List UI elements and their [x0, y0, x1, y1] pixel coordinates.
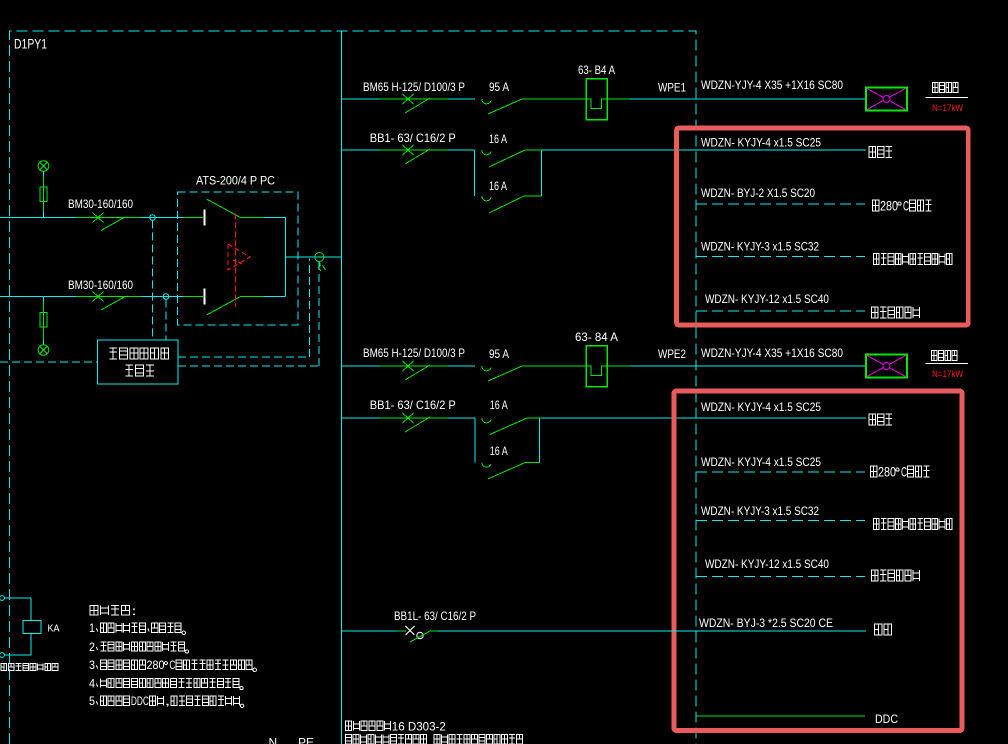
wire dashed sense left — [0, 361, 98, 363]
wire parallel rejoin 2 — [539, 418, 541, 462]
svg-text:N=17kW: N=17kW — [932, 103, 963, 113]
svg-text:5: 5 — [89, 695, 95, 708]
label 95A — [489, 80, 509, 94]
svg-text::: : — [131, 604, 137, 618]
svg-text:16 D303-2: 16 D303-2 — [392, 720, 446, 733]
svg-text:WDZN- KYJY-3 x1.5 SC32: WDZN- KYJY-3 x1.5 SC32 — [701, 240, 819, 254]
label cable WDZN-KYJY-3x1.5 SC32 (2) — [701, 504, 819, 518]
breaker QF3 BM65H-125/D100/3P — [342, 94, 476, 113]
svg-text:KA: KA — [48, 624, 60, 635]
wire dashed 手动控制盘 row1 — [696, 256, 865, 258]
terminal from fire module b — [0, 653, 4, 658]
label 16A a — [489, 132, 507, 146]
wire dashed sense from feed2 — [165, 300, 167, 341]
svg-text:WDZN- KYJY-4 x1.5 SC25: WDZN- KYJY-4 x1.5 SC25 — [701, 136, 821, 150]
label WPE1 — [658, 81, 686, 95]
current sensor CT1 — [315, 253, 326, 271]
node tap feed2 — [163, 294, 169, 300]
label 63-84 A — [575, 330, 618, 344]
indicator lamp HL1 — [38, 161, 49, 172]
svg-text:16 A: 16 A — [490, 444, 508, 458]
svg-text:95 A: 95 A — [489, 80, 509, 94]
wire dashed sense right A — [178, 259, 310, 358]
label N=17kW M2 — [932, 369, 963, 379]
wire parallel drop — [474, 150, 476, 196]
label cable WDZN-YJY-4X35+1X16 SC80 — [701, 78, 843, 92]
wire dashed 模块箱 row1 — [696, 310, 865, 312]
contactor 16A pole a — [482, 150, 542, 167]
contactor KM1 95A pole — [482, 99, 586, 114]
breaker QF2 BM30-160/160 contact — [93, 292, 126, 311]
svg-text:63- B4 A: 63- B4 A — [578, 63, 615, 77]
svg-text:DDC: DDC — [875, 712, 898, 726]
wire dashed sense from feed1 — [152, 221, 154, 341]
note 控制原理参考16D303-2 — [346, 720, 446, 733]
svg-text:1: 1 — [89, 622, 95, 635]
wire branch D to 电动阀 — [541, 417, 866, 419]
svg-text:C: C — [901, 465, 907, 480]
fan motor M1 排烟风机 — [866, 88, 907, 111]
svg-text:D1PY1: D1PY1 — [14, 36, 47, 52]
label DDC — [875, 712, 898, 726]
label 至消防控制室手动控制盘 (2) — [874, 519, 953, 530]
svg-text:BM65 H-125/ D100/3 P: BM65 H-125/ D100/3 P — [363, 80, 465, 94]
ATS blade bottom — [207, 297, 286, 316]
label QF2 BM30-160/160 — [68, 278, 133, 292]
label BM65H-125/D100/3P — [363, 80, 465, 94]
thermal relay FR1 63-B4A — [586, 79, 607, 120]
label 至消防模块箱 (1) — [872, 307, 920, 318]
svg-text:BM30-160/160: BM30-160/160 — [68, 278, 133, 292]
label 传感器 — [125, 365, 154, 376]
note item1 — [89, 622, 186, 635]
breaker QF6 BB1-63/C16/2P — [342, 413, 476, 432]
wire dashed 防火阀 row2 — [696, 471, 865, 473]
label D1PY1 — [14, 36, 47, 52]
wire parallel drop 2 — [474, 418, 476, 462]
sensor box 消防电源监控传感器 outline — [98, 340, 179, 384]
ATS contact bar top — [204, 210, 206, 226]
label PE bus — [298, 736, 314, 744]
terminal from fire module a — [0, 596, 4, 601]
wire incoming feed 1 — [0, 217, 183, 219]
label 至280C防火阀 (2) — [871, 465, 930, 480]
label cable WDZN-KYJY-4x1.5 SC25 (3) — [701, 455, 821, 469]
svg-text:280: 280 — [878, 465, 896, 480]
wire fuse2 stem — [43, 327, 45, 345]
svg-text:WDZN- KYJY-12 x1.5 SC40: WDZN- KYJY-12 x1.5 SC40 — [705, 292, 829, 306]
label WPE2 — [658, 347, 686, 361]
ATS interlock dashed red — [228, 214, 250, 308]
label cable WDZN-BYJ-2X1.5 SC20 — [701, 186, 815, 200]
svg-text:BB1L- 63/ C16/2 P: BB1L- 63/ C16/2 P — [394, 609, 476, 623]
label 电动阀 (1) — [869, 147, 892, 158]
svg-text:2: 2 — [89, 641, 95, 654]
svg-text:16 A: 16 A — [489, 132, 507, 146]
fuse FU1 — [40, 187, 47, 202]
wire dashed 手动控制盘 row2 — [696, 520, 865, 522]
label ATS-200/4P PC — [196, 174, 275, 188]
label 16A b — [489, 179, 507, 193]
wire dashed sense right B — [178, 262, 319, 366]
label BB1L-63/C16/2P — [394, 609, 476, 623]
svg-text:DDC: DDC — [131, 695, 149, 708]
svg-text:63- 84 A: 63- 84 A — [575, 330, 618, 344]
label cable WDZN-KYJY-12x1.5 SC40 (2) — [705, 557, 829, 571]
label cable WDZN-BYJ-3*2.5 SC20 CE — [699, 616, 833, 630]
svg-text:16 A: 16 A — [490, 398, 508, 412]
wire ATS output to bus — [285, 256, 341, 258]
wire fuse1 to feed — [43, 202, 45, 218]
label cable WDZN-KYJY-12x1.5 SC40 (1) — [705, 292, 829, 306]
breaker QF7 BB1L-63/C16/2P — [342, 626, 867, 642]
wire feed2 to fuse2 — [43, 297, 45, 313]
label 95A (2) — [489, 347, 509, 361]
label BB1-63/C16/2P — [370, 131, 456, 145]
svg-text:280: 280 — [880, 199, 898, 214]
enclosure D1PY1 dashed border — [10, 31, 697, 744]
svg-text:BB1- 63/ C16/2 P: BB1- 63/ C16/2 P — [370, 131, 456, 145]
wire ATS output bar — [284, 218, 286, 297]
label KA — [48, 624, 60, 635]
label 排烟风机 M2 — [926, 351, 969, 364]
svg-text:WPE1: WPE1 — [658, 81, 686, 95]
label 照明 — [875, 624, 892, 635]
wire KA loop — [4, 598, 31, 655]
svg-text:WDZN- KYJY-3 x1.5 SC32: WDZN- KYJY-3 x1.5 SC32 — [701, 504, 819, 518]
label cable WDZN-KYJY-4x1.5 SC25 (1) — [701, 136, 821, 150]
svg-text:WDZN-YJY-4 X35 +1X16 SC80: WDZN-YJY-4 X35 +1X16 SC80 — [701, 346, 843, 360]
svg-text:WPE2: WPE2 — [658, 347, 686, 361]
highlight box WPE2 circuits — [674, 391, 962, 731]
svg-text:16 A: 16 A — [489, 179, 507, 193]
svg-text:BM30-160/160: BM30-160/160 — [68, 197, 133, 211]
svg-text:C: C — [169, 659, 175, 672]
svg-text:N=17kW: N=17kW — [932, 369, 963, 379]
note item2 — [89, 641, 189, 654]
contactor 16A pole d — [482, 462, 540, 479]
svg-text:4: 4 — [89, 677, 95, 690]
wire ATS input bottom green — [183, 296, 204, 298]
note item3 — [89, 659, 256, 672]
wire dashed 模块箱 row2 — [696, 576, 865, 578]
svg-text:WDZN- KYJY-4 x1.5 SC25: WDZN- KYJY-4 x1.5 SC25 — [701, 455, 821, 469]
svg-text:C: C — [903, 199, 909, 214]
indicator lamp HL2 — [38, 345, 49, 356]
wire parallel rejoin — [541, 150, 543, 196]
svg-text:PE: PE — [298, 736, 314, 744]
svg-text:,: , — [164, 695, 170, 708]
node tap feed1 — [150, 215, 156, 221]
wire ATS input top green — [183, 217, 204, 219]
svg-text:3: 3 — [89, 659, 95, 672]
svg-text:95 A: 95 A — [489, 347, 509, 361]
label 来自消防控制模块 — [1, 663, 58, 670]
note item4 — [89, 677, 243, 690]
label 至消防模块箱 (2) — [872, 570, 920, 581]
highlight box WPE1 circuits — [677, 128, 969, 325]
label 16A c — [490, 398, 508, 412]
breaker QF4 BB1-63/C16/2P — [342, 145, 475, 164]
label N=17kW M1 — [932, 103, 963, 113]
ATS blade top — [207, 199, 286, 218]
note bottom clipped — [346, 735, 523, 744]
label cable WDZN-KYJY-3x1.5 SC32 (1) — [701, 240, 819, 254]
wire DDC — [697, 715, 866, 717]
ATS U1 dashed outline — [178, 192, 299, 325]
label BB1-63/C16/2P (2) — [370, 398, 456, 412]
wire branch B to 电动阀 — [542, 149, 867, 151]
label N bus — [269, 736, 278, 744]
svg-text:WDZN- KYJY-4 x1.5 SC25: WDZN- KYJY-4 x1.5 SC25 — [701, 400, 821, 414]
svg-text:BB1- 63/ C16/2 P: BB1- 63/ C16/2 P — [370, 398, 456, 412]
label 16A d — [490, 444, 508, 458]
svg-text:280: 280 — [146, 659, 164, 672]
label BM65H-125/D100/3P (2) — [363, 346, 465, 360]
contactor 16A pole b — [482, 196, 542, 213]
wire dashed 防火阀 row1 — [696, 203, 865, 205]
wire WPE2 to fan — [607, 365, 866, 367]
note 控制要求 — [90, 604, 137, 618]
label 至280C防火阀 (1) — [873, 199, 932, 214]
svg-text:WDZN- BYJ-3 *2.5 SC20 CE: WDZN- BYJ-3 *2.5 SC20 CE — [699, 616, 833, 630]
label 消防电源监控 — [109, 348, 168, 359]
thermal relay FR2 63-84A — [586, 346, 607, 387]
svg-text:BM65 H-125/ D100/3 P: BM65 H-125/ D100/3 P — [363, 346, 465, 360]
breaker QF5 BM65H-125/D100/3P — [342, 361, 476, 380]
wire incoming feed 2 — [0, 296, 183, 298]
contactor 16A pole c — [482, 418, 541, 435]
wire WPE1 to fan — [607, 98, 866, 100]
label 63-B4 A — [578, 63, 615, 77]
label cable WDZN-KYJY-4x1.5 SC25 (2) — [701, 400, 821, 414]
relay coil KA — [23, 621, 41, 634]
svg-text:WDZN-YJY-4 X35 +1X16 SC80: WDZN-YJY-4 X35 +1X16 SC80 — [701, 78, 843, 92]
label 至消防控制室手动控制盘 (1) — [874, 254, 953, 265]
label QF1 BM30-160/160 — [68, 197, 133, 211]
label cable WDZN-YJY-4X35+1X16 SC80 (2) — [701, 346, 843, 360]
svg-text:WDZN- KYJY-12 x1.5 SC40: WDZN- KYJY-12 x1.5 SC40 — [705, 557, 829, 571]
bus vertical feeder — [341, 31, 343, 744]
breaker QF1 BM30-160/160 contact — [93, 213, 126, 231]
ATS contact bar bottom — [204, 289, 206, 305]
label 排烟风机 M1 — [926, 83, 969, 98]
svg-text:N: N — [269, 736, 278, 744]
wire lamp1 stem — [43, 171, 45, 187]
fuse FU2 — [40, 313, 47, 328]
fan motor M2 排烟风机 — [866, 355, 907, 378]
contactor KM2 95A pole — [482, 366, 586, 381]
svg-text:WDZN- BYJ-2 X1.5 SC20: WDZN- BYJ-2 X1.5 SC20 — [701, 186, 815, 200]
svg-text:ATS-200/4 P PC: ATS-200/4 P PC — [196, 174, 275, 188]
note item5 — [89, 695, 244, 708]
label 电动阀 (2) — [869, 414, 892, 425]
